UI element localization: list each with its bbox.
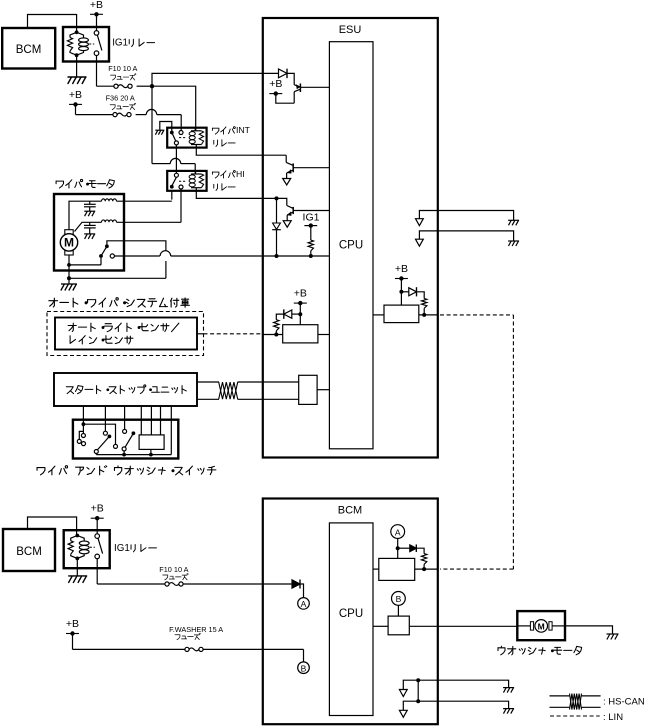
wire out 1 (ESU right) bbox=[419, 211, 513, 221]
arrow out (Q2 emitter) bbox=[283, 179, 291, 186]
fuse F36 20A bbox=[113, 113, 131, 117]
dashed wire sensor to ESU (LIN) bbox=[197, 333, 263, 335]
wiper and washer switch box bbox=[73, 420, 178, 459]
wire motor brush2 diagonal bbox=[75, 222, 102, 231]
wire +B to relay switch (bottom) bbox=[96, 518, 98, 534]
connector A (left) bbox=[298, 598, 310, 610]
capacitor C1 (motor) bbox=[84, 201, 96, 211]
wire BCM to IG1 relay coil (bottom) bbox=[28, 517, 77, 534]
CPU box (BCM) bbox=[329, 523, 373, 716]
wire CAN box to CPU bbox=[317, 389, 329, 391]
dashed box (auto wiper option) bbox=[47, 312, 204, 356]
wire node to INT relay coil bbox=[152, 86, 196, 131]
diode D5 (BCM A input) bbox=[292, 580, 300, 589]
svg-text:F36 20 A: F36 20 A bbox=[106, 94, 135, 103]
svg-text:BCM: BCM bbox=[338, 505, 362, 517]
label auto wiper system bbox=[49, 298, 189, 308]
park switch (motor) bbox=[99, 244, 114, 258]
svg-text:: LIN: : LIN bbox=[603, 712, 623, 723]
legend HS-CAN text bbox=[603, 696, 645, 707]
connector A (BCM) bbox=[391, 525, 405, 539]
wire motor brush to coil line 1 bbox=[69, 201, 102, 230]
svg-text:+B: +B bbox=[294, 288, 307, 300]
driver box (sensor input) bbox=[283, 325, 318, 343]
transistor Q2 (ESU) bbox=[286, 155, 329, 178]
+B supply node (Q1) bbox=[269, 78, 282, 96]
wire BCM out 2 bbox=[403, 701, 508, 710]
wire fuse to diode (bottom) bbox=[183, 583, 292, 585]
legend HS-CAN symbol bbox=[550, 694, 601, 710]
svg-text:M: M bbox=[64, 236, 74, 250]
fuse F10 10A (top) bbox=[114, 84, 132, 88]
+B supply node (F36) bbox=[69, 89, 82, 107]
relay IG1 (bottom) bbox=[64, 530, 110, 568]
wiper motor box bbox=[54, 194, 124, 271]
ground (out 2) bbox=[508, 241, 519, 246]
ground (IG1 relay top) bbox=[68, 77, 87, 84]
relay Wiper HI bbox=[167, 170, 206, 190]
wire Q1 emitter to +B bbox=[276, 94, 294, 104]
fuse F10 10A (bottom) bbox=[165, 582, 183, 586]
transistor Q3 (ESU) bbox=[275, 196, 330, 220]
label fuse F36 bbox=[106, 94, 136, 110]
resistor R2 (sensor pull-up) bbox=[274, 314, 284, 334]
wire HI switch common to motor coil1 bbox=[171, 191, 173, 200]
arrow down (BCM out 2) bbox=[399, 710, 407, 717]
arrow down 2 bbox=[416, 239, 424, 246]
wire HI switch NO to motor coil2 bbox=[180, 189, 182, 222]
HS-CAN twist symbol bbox=[219, 382, 238, 399]
relay IG1 (top) bbox=[63, 27, 109, 62]
label washer fuse bbox=[169, 625, 223, 640]
start-stop unit box bbox=[54, 373, 197, 406]
wire BCM out 1 bbox=[403, 680, 508, 689]
label start-stop unit bbox=[66, 385, 186, 394]
dashed LIN wire (ESU to BCM) bbox=[440, 315, 513, 569]
ground (wiper motor) bbox=[61, 278, 77, 290]
svg-text:+B: +B bbox=[69, 89, 82, 101]
svg-text:INT: INT bbox=[236, 125, 251, 135]
driver box (LIN ESU) bbox=[384, 305, 419, 323]
wire diode to connector A bbox=[301, 584, 304, 598]
ground (C2) bbox=[84, 234, 95, 239]
wire INT switch common to ground bbox=[160, 122, 172, 133]
svg-text:CPU: CPU bbox=[339, 608, 363, 620]
wire IG1 coil to ground bbox=[76, 55, 78, 77]
wire CPU to LIN driver bbox=[373, 314, 384, 316]
svg-text:HI: HI bbox=[236, 169, 245, 179]
switch stub 7 (ground) bbox=[170, 406, 172, 455]
arrow down (BCM out 1) bbox=[399, 690, 407, 697]
wire node down to HI relay coil bbox=[152, 86, 195, 171]
diode D1 (ESU +B input) bbox=[279, 69, 288, 79]
node BCM out 1 bbox=[416, 678, 420, 682]
washer switch box bbox=[139, 435, 164, 450]
module BCM (bottom-left) bbox=[3, 529, 55, 571]
wire D1 to transistor Q1 bbox=[287, 73, 294, 84]
wire IG1 switch to fuse F10 bbox=[97, 55, 114, 86]
wire IG1 coil to ground (bottom) bbox=[76, 558, 78, 575]
ground (IG1 relay bottom) bbox=[68, 576, 87, 583]
label IG1 relay (top) bbox=[112, 38, 154, 49]
wire out 2 (ESU right) bbox=[419, 231, 513, 241]
diode D6 (BCM driver) bbox=[398, 544, 424, 553]
svg-text:+B: +B bbox=[395, 263, 408, 275]
+B supply node (IG1 relay) bbox=[90, 0, 103, 17]
fuse F.WASHER 15A bbox=[185, 647, 203, 651]
switch contact group 1 bbox=[77, 424, 117, 448]
switch common wire bbox=[96, 449, 171, 456]
label wiper motor bbox=[56, 179, 114, 188]
switch stub 3 bbox=[123, 406, 127, 433]
wire motor ground bbox=[67, 265, 166, 280]
label Wiper INT relay bbox=[212, 125, 250, 146]
wire +B to LIN driver bbox=[399, 279, 403, 306]
legend LIN dashed bbox=[550, 715, 600, 717]
svg-text:B: B bbox=[301, 663, 307, 673]
wire park switch contact loop bbox=[107, 241, 166, 278]
wire B to washer driver bbox=[397, 605, 399, 616]
module BCM box (bottom) bbox=[263, 499, 438, 725]
label IG1 relay (bottom) bbox=[114, 543, 156, 554]
CPU box (ESU) bbox=[329, 42, 373, 449]
label Wiper HI relay bbox=[212, 169, 244, 191]
wire washer motor to ground bbox=[565, 626, 613, 634]
ground (C1) bbox=[84, 211, 95, 216]
label IG1 (pull-up) bbox=[303, 212, 320, 224]
wire +B to fuse F36 bbox=[76, 104, 113, 114]
wire CPU to washer driver bbox=[373, 625, 388, 627]
capacitor C2 (motor) bbox=[84, 222, 96, 234]
svg-text:+B: +B bbox=[90, 0, 103, 11]
svg-text:M: M bbox=[538, 621, 545, 631]
connector B (BCM) bbox=[392, 592, 406, 606]
svg-text:F10 10 A: F10 10 A bbox=[108, 64, 137, 73]
+B supply node (LIN driver) bbox=[395, 263, 408, 281]
svg-text:A: A bbox=[395, 527, 401, 537]
svg-text:BCM: BCM bbox=[16, 44, 42, 56]
motor M (wiper) bbox=[60, 230, 77, 255]
ground (out 1) bbox=[508, 220, 519, 225]
transistor Q1 (ESU) bbox=[294, 84, 329, 104]
svg-text:CPU: CPU bbox=[339, 239, 363, 251]
HS-CAN twisted pair wire bbox=[197, 382, 299, 399]
label washer motor bbox=[498, 646, 582, 655]
legend LIN text bbox=[603, 712, 623, 723]
svg-text:A: A bbox=[301, 599, 307, 609]
wire IG1 switch to fuse (bottom) bbox=[97, 558, 165, 584]
switch stub 2 bbox=[103, 406, 107, 435]
svg-text:F.WASHER 15 A: F.WASHER 15 A bbox=[169, 625, 223, 634]
wire +B to IG1 relay switch bbox=[96, 14, 98, 31]
arrow out (Q3 emitter) bbox=[283, 221, 291, 228]
inductor coil2 (motor) bbox=[102, 220, 182, 222]
switch blade 2 bbox=[122, 431, 135, 454]
resistor R1 (IG1 pull-up) bbox=[308, 226, 313, 258]
wire BCM driver to edge (LIN) bbox=[415, 568, 438, 570]
switch stub 1 bbox=[82, 406, 86, 426]
+B supply node (IG1 relay bottom) bbox=[91, 503, 104, 521]
svg-text:+B: +B bbox=[269, 78, 282, 90]
node BCM out 2 bbox=[416, 699, 420, 703]
svg-text:F10 10 A: F10 10 A bbox=[159, 565, 188, 574]
svg-text:BCM: BCM bbox=[16, 546, 42, 558]
wire LIN driver to ESU edge bbox=[419, 314, 438, 316]
ground (INT relay) bbox=[155, 130, 164, 135]
svg-text:IG1: IG1 bbox=[303, 212, 320, 224]
IG1 pull-up node bbox=[304, 223, 317, 227]
wire HI coil bottom to ESU transistor bbox=[196, 188, 276, 199]
washer driver box (BCM) bbox=[388, 616, 409, 635]
ground (BCM out 2) bbox=[503, 709, 514, 714]
diode D3 (sensor) bbox=[284, 309, 301, 319]
resistor R3 (LIN driver) bbox=[422, 299, 427, 317]
driver box (BCM LIN) bbox=[379, 558, 415, 580]
wire BCM to IG1 relay coil bbox=[28, 15, 77, 32]
wire +B to driver box (sensor) bbox=[298, 303, 302, 325]
wire INT coil bottom to ESU transistor bbox=[196, 145, 286, 156]
node F10/ESU bbox=[150, 84, 154, 88]
wire park switch to ESU bbox=[114, 251, 329, 256]
motor M (washer) bbox=[517, 620, 565, 633]
wire washer fuse to connector B bbox=[203, 649, 303, 662]
label fuse F10 (top) bbox=[108, 64, 137, 80]
wire fuse F36 to INT relay switch bbox=[136, 109, 182, 130]
ground (BCM out 1) bbox=[503, 688, 514, 693]
svg-text:B: B bbox=[396, 594, 402, 604]
relay Wiper INT bbox=[167, 127, 206, 147]
label wiper and washer switch bbox=[37, 466, 216, 475]
switch stubs to washer switch bbox=[141, 406, 160, 435]
label rain sensor bbox=[70, 336, 133, 344]
wire BCM out link bbox=[417, 680, 419, 701]
label auto light sensor bbox=[68, 323, 179, 332]
washer motor box bbox=[517, 611, 565, 640]
inductor coil1 (motor) bbox=[102, 199, 172, 201]
wire A to driver (BCM) bbox=[396, 539, 400, 559]
sensor box (auto light/rain) bbox=[55, 318, 197, 350]
label fuse F10 (bottom) bbox=[159, 565, 188, 580]
+B supply node (sensor) bbox=[294, 288, 307, 306]
module ESU box bbox=[263, 18, 438, 458]
svg-text:IG1: IG1 bbox=[112, 38, 128, 49]
wire node to ESU +B input bbox=[152, 73, 279, 86]
wire +B to washer fuse bbox=[73, 634, 185, 650]
wire CPU to BCM driver bbox=[373, 568, 379, 570]
wire INT switch to HI switch bbox=[175, 145, 177, 173]
diode D4 (LIN driver) bbox=[401, 287, 424, 298]
svg-text:ESU: ESU bbox=[339, 24, 362, 36]
ground (washer motor) bbox=[607, 634, 619, 640]
module BCM (top) bbox=[2, 28, 55, 69]
arrow down 1 bbox=[416, 219, 424, 226]
wire washer driver to motor bbox=[409, 625, 517, 627]
svg-text:IG1: IG1 bbox=[114, 543, 130, 554]
+B supply node (washer) bbox=[66, 618, 79, 636]
svg-text:+B: +B bbox=[66, 618, 79, 630]
diode D2 (zener to line) bbox=[272, 198, 281, 258]
wire motor bottom bbox=[67, 255, 101, 267]
connector B (left) bbox=[298, 662, 310, 674]
resistor R4 (BCM driver) bbox=[421, 554, 426, 572]
wire fuse F10 to node bbox=[137, 85, 152, 87]
connector box (ESU CAN) bbox=[299, 375, 317, 404]
svg-text:: HS-CAN: : HS-CAN bbox=[603, 696, 645, 707]
wire sensor input (ESU) bbox=[263, 333, 283, 337]
switch blade 1 bbox=[94, 435, 111, 454]
wire driver to CPU (sensor) bbox=[318, 334, 330, 336]
svg-text:+B: +B bbox=[91, 503, 104, 515]
